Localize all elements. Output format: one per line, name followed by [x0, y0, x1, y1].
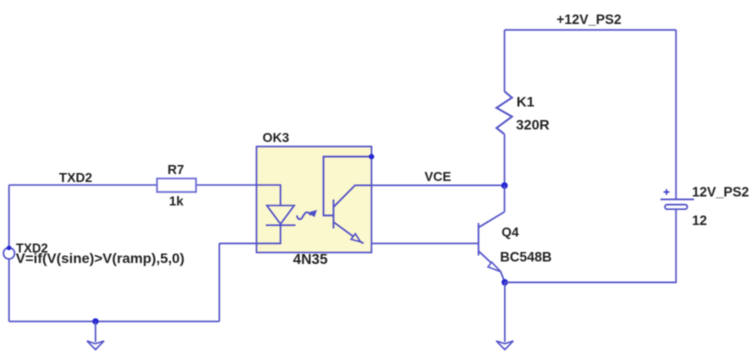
svg-text:VCE: VCE — [425, 169, 452, 184]
wire VCE net — [372, 184, 505, 186]
transistor Q4 — [479, 212, 505, 282]
junction dot VCE — [501, 182, 508, 189]
svg-text:TXD2: TXD2 — [59, 170, 92, 185]
wire K1 top lead — [504, 30, 506, 92]
phototransistor inside OK3 — [324, 157, 372, 244]
label 12V_PS2 — [692, 185, 749, 200]
optocoupler OK3 body — [257, 147, 372, 253]
svg-text:K1: K1 — [517, 94, 535, 110]
svg-text:12V_PS2: 12V_PS2 — [692, 185, 749, 200]
label TXD2 at source — [16, 242, 48, 256]
label K1 — [517, 94, 535, 110]
wire emitter to ground — [504, 282, 506, 342]
junction dot emitter — [502, 279, 509, 286]
LED inside OK3 — [219, 185, 295, 243]
voltage source VG1 circle — [3, 246, 14, 259]
wire: bottom left rail — [9, 243, 219, 321]
value V=if(V(sine)>V(ramp),5,0) — [16, 251, 185, 267]
label R7 — [168, 162, 185, 177]
resistor R7 — [157, 179, 196, 193]
wire emitter rail to battery — [505, 281, 676, 283]
wire: source vertical left — [8, 185, 10, 321]
svg-text:OK3: OK3 — [263, 130, 290, 145]
label Q4 — [502, 225, 520, 240]
ground symbol right — [496, 341, 513, 350]
svg-text:320R: 320R — [516, 117, 549, 133]
wire K1 bottom lead — [504, 134, 506, 185]
value 12 — [692, 213, 707, 228]
resistor K1 zigzag — [497, 91, 513, 134]
wire +12V_PS2 top rail — [505, 29, 677, 31]
label 4N35 — [293, 252, 328, 268]
node TXD2 label — [59, 170, 92, 185]
wire: TXD2 net top horizontal — [9, 184, 257, 186]
wire battery bottom lead — [505, 209, 676, 282]
wire battery top lead — [675, 30, 677, 200]
photon squiggle arrow — [297, 211, 316, 220]
battery plus mark — [664, 189, 670, 195]
svg-text:1k: 1k — [169, 194, 184, 209]
svg-text:BC548B: BC548B — [500, 250, 552, 265]
pin dot base OK3 — [369, 154, 374, 159]
node VCE label — [425, 169, 452, 184]
wire opto emitter to Q4 base — [372, 242, 479, 244]
wire Q4 collector lead — [504, 186, 506, 212]
svg-text:+12V_PS2: +12V_PS2 — [557, 12, 622, 27]
svg-text:R7: R7 — [168, 162, 185, 177]
net label +12V_PS2 — [557, 12, 622, 27]
svg-text:V=if(V(sine)>V(ramp),5,0): V=if(V(sine)>V(ramp),5,0) — [16, 251, 185, 267]
battery V_PS2 — [661, 199, 695, 209]
ground symbol left — [87, 321, 104, 349]
svg-text:4N35: 4N35 — [293, 252, 328, 268]
value 320R — [516, 117, 549, 133]
value BC548B — [500, 250, 552, 265]
label OK3 — [263, 130, 290, 145]
svg-text:12: 12 — [692, 213, 707, 228]
value 1k — [169, 194, 184, 209]
svg-text:Q4: Q4 — [502, 225, 520, 240]
junction dot ground left — [92, 318, 98, 324]
